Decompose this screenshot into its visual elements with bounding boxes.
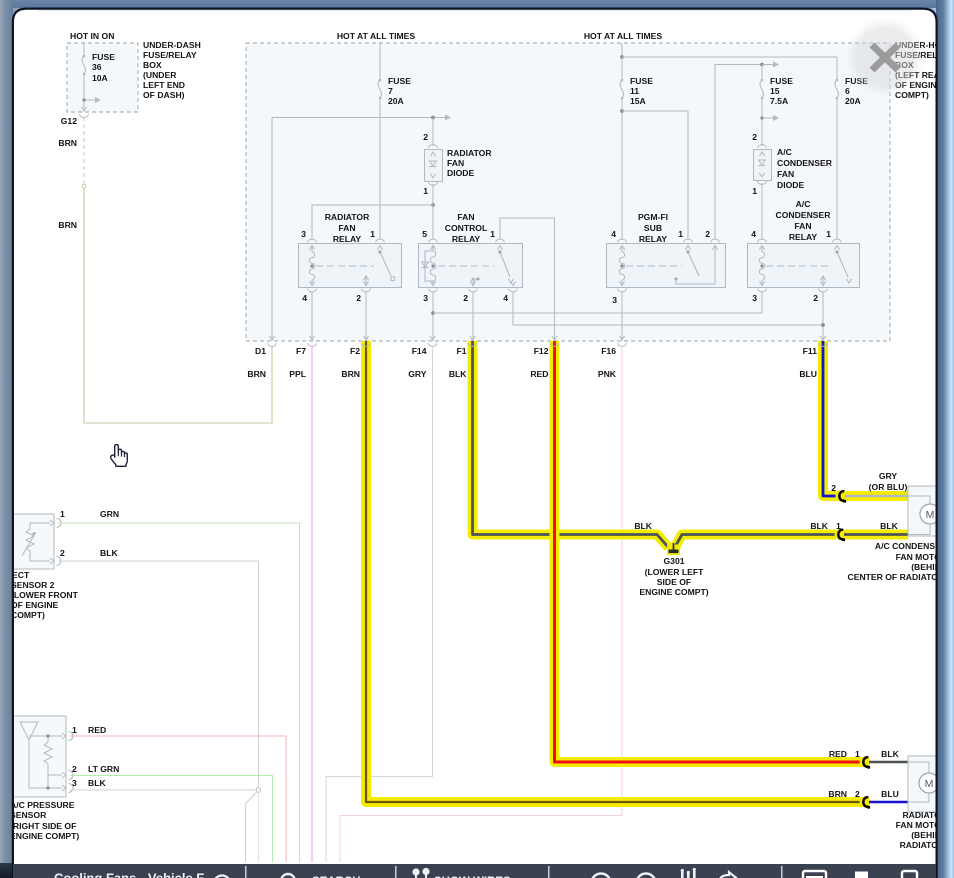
connector glyph	[863, 757, 868, 766]
branch to PGM-FI pin1	[622, 111, 688, 239]
pin 5 connector	[429, 239, 438, 242]
connector glyph	[863, 797, 868, 806]
wire pin4 to F7 exit	[311, 292, 313, 341]
branch arrow inside under-dash box	[84, 99, 97, 101]
pin 1 connector	[684, 239, 693, 242]
wire pin1 inner	[30, 522, 50, 524]
relay K3 contact dashed link	[626, 265, 682, 267]
pin 2 connector	[711, 239, 720, 242]
wire GRY pigtail highlighted	[845, 491, 908, 501]
bus fuse11 to fuse6	[622, 56, 837, 58]
wire PPL F7	[311, 346, 313, 862]
pin 4 connector	[308, 289, 317, 292]
pin 1 connector	[62, 733, 66, 739]
exit connector overlay F1	[468, 343, 477, 346]
wire PNK F16	[340, 346, 622, 862]
relay K4 switch blade	[835, 250, 838, 253]
wire F11 BLU highlighted	[823, 341, 838, 496]
splice	[82, 184, 86, 188]
connector glyph	[838, 530, 843, 539]
junction	[46, 786, 49, 789]
resistor R-ACP	[47, 736, 49, 742]
pin 4 connector	[618, 239, 627, 242]
wire fuse11 to PGM-FI pins	[621, 98, 623, 239]
wire branch to radiator fan relay pin3	[312, 205, 433, 239]
wire pin1 inner	[29, 735, 62, 737]
pin 2 connector	[62, 772, 66, 778]
wire pin3 down to wire A	[761, 292, 763, 313]
ECT sensor 2 box	[5, 514, 54, 569]
relay K1 coil	[311, 247, 313, 252]
wire pin2 to F1 exit	[472, 292, 474, 341]
relay K3 coil	[621, 247, 623, 252]
wire bus D1 with arrow	[272, 117, 446, 119]
connector C-BRN	[860, 797, 871, 808]
fan control relay K2	[419, 244, 523, 288]
pin 3 connector	[429, 289, 438, 292]
A/C condenser fan motor M1	[908, 486, 940, 536]
wire A to A/C condenser fan relay pin3	[433, 292, 762, 313]
relay K1 contact dashed link	[316, 265, 374, 267]
wire fuse36 to exit	[83, 74, 85, 109]
relay K2 switch blade	[498, 250, 501, 253]
ground G301	[667, 545, 680, 556]
A/C pressure sensor box	[8, 716, 66, 797]
pin 2 connector	[50, 558, 54, 564]
pin 1 connector	[496, 239, 505, 242]
radiator fan diode D-RF	[429, 145, 438, 148]
A/C condenser fan relay K4	[748, 244, 860, 288]
pin exit G12	[81, 107, 86, 111]
pin 3 connector	[62, 785, 66, 791]
fuse F11	[621, 57, 623, 80]
relay K2 coil with diode	[432, 247, 434, 251]
pin 2 connector	[819, 289, 828, 292]
under-dash fuse/relay box	[67, 43, 138, 112]
relay K1 pin2 stub	[363, 276, 368, 280]
wire BLK to switch	[58, 561, 258, 788]
relay K4 pin2 stub	[820, 276, 825, 280]
wire switch lower right	[257, 793, 259, 862]
wire diode to A/C relay pin4	[761, 183, 763, 239]
pin 3 connector	[618, 289, 627, 292]
thermistor R-ECT	[29, 523, 31, 529]
wire BLK pigtail to radiator fan motor	[869, 761, 908, 764]
junction	[46, 734, 49, 737]
A/C condenser fan diode D-AC	[758, 145, 767, 148]
pin 2 connector	[469, 289, 478, 292]
cursor	[111, 445, 128, 467]
pin 4 connector	[509, 289, 518, 292]
wire fuse36 feed	[83, 43, 85, 56]
pin 2 connector	[362, 289, 371, 292]
pin 4 connector	[758, 239, 767, 242]
wire pin2 to F2 exit	[365, 292, 367, 341]
wire fuse7 feed	[379, 43, 381, 80]
wire F2 BRN highlighted	[366, 341, 866, 802]
wire fuse15 down	[761, 98, 763, 146]
pin 3 connector	[758, 289, 767, 292]
exit connector overlay F12	[550, 343, 559, 346]
wire pin3 to F16 exit	[621, 292, 623, 341]
radiator fan relay K1	[299, 244, 402, 288]
exit pin D1	[269, 336, 274, 340]
fuse F36	[82, 56, 85, 74]
wire fuse7 to relay pin1	[379, 98, 381, 239]
relay K4 contact dashed link	[766, 265, 830, 267]
junction	[620, 55, 624, 59]
wire LT GRN	[70, 776, 273, 863]
wire switch lower left	[245, 804, 247, 863]
pin 1 connector	[376, 239, 385, 242]
wire BLK pin3 to switch	[70, 789, 256, 791]
wire pin2 inner	[30, 560, 50, 562]
pressure transducer symbol	[20, 722, 38, 740]
wire BLK pigtail highlighted	[844, 530, 908, 540]
svg-text:Cooling Fans - Vehicle F: Cooling Fans - Vehicle F	[54, 871, 204, 878]
fuse F6	[835, 80, 838, 98]
wire F1 BLK highlighted	[473, 341, 669, 548]
wire RED	[70, 736, 286, 862]
connector C2 GRY	[836, 491, 847, 502]
exit pin F2	[363, 336, 368, 340]
connector C1 BLK	[835, 529, 846, 540]
junction	[821, 323, 825, 327]
wire GRN	[58, 523, 300, 862]
wire diode feed	[432, 118, 434, 147]
wire fuse6 to A/C relay pin1	[836, 98, 838, 239]
wire PGM-FI pin2 riser	[715, 65, 762, 240]
wire junction to fan control relay pin5	[432, 205, 434, 239]
fuse F15	[761, 65, 763, 81]
exit pin F14	[430, 336, 435, 340]
wire fuse11 feed	[621, 43, 623, 57]
wire fuse6 feed	[836, 57, 838, 80]
wire GRY F14	[326, 346, 433, 862]
switch blade	[246, 792, 257, 803]
exit pin F1	[470, 336, 475, 340]
pin 1 connector	[833, 239, 842, 242]
relay K1 switch blade	[378, 250, 381, 253]
exit pin F12	[552, 336, 557, 340]
wire pin3 to F14 exit	[432, 292, 434, 341]
radiator fan motor M2	[908, 756, 940, 812]
PGM-FI sub relay K3	[607, 244, 726, 288]
wire BLU pigtail to radiator fan motor	[869, 801, 908, 804]
junction	[431, 116, 435, 120]
pin 1 connector	[50, 520, 54, 526]
under-hood fuse/relay box	[246, 43, 890, 341]
relay K2 contact dashed link	[438, 265, 494, 267]
exit connector overlay F2	[362, 343, 371, 346]
relay K3 switch blade	[686, 250, 689, 253]
junction	[620, 109, 624, 113]
wire BRN dashed segment	[83, 117, 85, 183]
exit pin F16	[619, 336, 624, 340]
wire transducer to pin3 line	[29, 740, 62, 788]
junction	[760, 63, 764, 67]
switch contact	[256, 788, 260, 792]
fuse F7	[378, 80, 381, 98]
connector glyph	[839, 491, 844, 500]
relay K2 pin2 contact	[477, 278, 480, 281]
wire pin1 loop to F12	[500, 218, 555, 341]
wire pin2 inner	[48, 774, 62, 776]
bus arrow right of fuse15	[762, 64, 774, 66]
branch arrow at fuse15	[762, 117, 774, 119]
wire resistor to pin3 line	[47, 775, 49, 788]
wire BRN to D1	[84, 188, 272, 423]
wire F12 RED highlighted	[555, 341, 867, 762]
relay K3 contact to pin2	[675, 278, 678, 281]
junction	[431, 203, 435, 207]
exit connector overlay F11	[819, 343, 828, 346]
wire diode to junction	[432, 184, 434, 205]
exit pin F11	[820, 336, 825, 340]
relay K4 coil	[761, 247, 763, 252]
wire pin2 to F11 exit	[822, 292, 824, 341]
wire B pin4 to F11 column	[513, 292, 823, 325]
pin 3 connector	[308, 239, 317, 242]
connector C-RED	[860, 757, 871, 768]
junction	[431, 311, 435, 315]
wire BLK highlighted right of ground	[676, 535, 837, 547]
exit pin F7	[309, 336, 314, 340]
